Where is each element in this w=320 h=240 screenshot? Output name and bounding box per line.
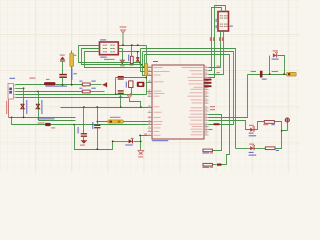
LED D6 red text above bbox=[249, 144, 254, 145]
text red right of fuse bbox=[74, 55, 77, 56]
connector P2 pin texts bbox=[220, 14, 222, 17]
connector P2 right blue mark bbox=[230, 26, 233, 27]
gnd stem boot row2 bbox=[122, 49, 124, 61]
text fuse rating bbox=[73, 73, 76, 74]
capacitor C1 bars bbox=[118, 77, 124, 79]
capacitor C7 blue text below bbox=[262, 79, 267, 80]
net segment maroon R8 bbox=[217, 164, 222, 166]
wire TR led branch left bbox=[269, 56, 271, 75]
wire SWD top loop 2 bbox=[209, 6, 226, 78]
text GND C3 bbox=[80, 145, 85, 146]
wire LED B row left bbox=[236, 148, 251, 150]
wire SWD bottom 2 bbox=[209, 32, 224, 75]
wire C4 bottom to gnd row bbox=[97, 128, 99, 150]
text GND boot bbox=[120, 65, 125, 66]
wire IC OSC_OUT pin bbox=[147, 91, 153, 93]
wire 5V stem bbox=[62, 62, 64, 75]
resistor R5 blue text bbox=[271, 124, 274, 125]
wire resistor A to corner bbox=[275, 122, 288, 131]
wire bus drop1 to IC bbox=[141, 49, 153, 72]
wire bus line3 to R8 row staircase bbox=[145, 55, 230, 165]
connector P1 boot header box bbox=[100, 42, 119, 55]
wire R8 to maroon segment bbox=[213, 164, 217, 166]
wire boot row1 left bbox=[79, 46, 141, 63]
resistor R7 outline row1 bbox=[203, 149, 212, 152]
wire D+ row to crystal area bbox=[91, 91, 105, 93]
LED D7 red text above bbox=[273, 50, 278, 51]
fuse F1 body bbox=[70, 53, 74, 67]
resistor R3 vertical outline bbox=[130, 56, 133, 63]
wire VBUS to VCC arrow bbox=[91, 84, 102, 86]
junction gnd row bbox=[96, 148, 98, 150]
wire cap mid down to rail bbox=[120, 95, 122, 108]
wire resistor B up bbox=[276, 131, 282, 149]
wire OSC left vertical bbox=[115, 78, 117, 95]
wire USB pin2 D- short bbox=[16, 88, 24, 90]
wire cap bank chain2 bbox=[97, 108, 99, 126]
crystal Y1 value vertical text bbox=[126, 82, 127, 88]
wire VDD rail mid bbox=[61, 107, 153, 109]
resistor R4 lower stub bbox=[146, 76, 148, 78]
wire boot row2 right bbox=[119, 48, 123, 50]
net label red pin 111 bbox=[210, 109, 215, 110]
ground open arrow led bbox=[138, 151, 144, 155]
wire LED B to resistor bbox=[255, 148, 266, 150]
resistor R7 texts below bbox=[203, 153, 210, 154]
wire VBUS from USB pin1 bbox=[16, 84, 45, 86]
wire ESD diode D1 vertical bbox=[23, 89, 25, 118]
wire boot row3 right bbox=[119, 51, 140, 53]
net label red upper right pins bbox=[217, 66, 220, 67]
resistor R5 outline bbox=[264, 121, 274, 124]
wire lower row to IC bbox=[51, 124, 153, 126]
IC U2 pin number marks left bbox=[149, 65, 151, 68]
IC U2 body bbox=[152, 65, 204, 139]
text 5V label bbox=[60, 55, 65, 56]
net label SWD wire pair1 bbox=[210, 37, 212, 41]
wire LED A to resistor bbox=[255, 122, 265, 130]
power symbol 3V3 right bbox=[285, 118, 289, 122]
junction rail a bbox=[83, 106, 85, 108]
IC U2 right pin name texts bbox=[182, 66, 203, 69]
net label red pin 108 bbox=[210, 106, 215, 107]
text GND led bbox=[138, 156, 143, 157]
wire fuse to VBUS bbox=[71, 67, 73, 85]
wire boot row3 left bbox=[85, 52, 145, 68]
text above VCC arrow bbox=[120, 27, 127, 28]
junction 5V chain bbox=[62, 84, 64, 86]
net label filled right pin 124 bbox=[214, 123, 220, 125]
IC U2 left pin stubs bbox=[148, 68, 152, 136]
wire VDD pin to top right rail bbox=[209, 75, 248, 118]
IC U2 right pin stubs bbox=[204, 68, 209, 135]
capacitor C4 bars bbox=[94, 125, 100, 127]
LED D6 glyph bbox=[250, 146, 254, 150]
IC U2 designator blue bbox=[153, 61, 158, 62]
capacitor C3 designator vertical bbox=[78, 127, 79, 134]
crystal Y1 case outline bbox=[129, 81, 133, 88]
wire bus drop3 to IC bbox=[145, 55, 153, 68]
wire right pin row 120 to LED A bbox=[209, 121, 251, 130]
connector P1 designator blue bbox=[100, 39, 106, 40]
net label under IC blue bbox=[152, 140, 169, 141]
wire crystal stub bbox=[131, 88, 133, 95]
LED D5 glyph bbox=[250, 128, 254, 132]
resistor R2 value bbox=[91, 88, 96, 89]
wire boot row2 left bbox=[82, 49, 143, 65]
wire gnd row bottom bbox=[75, 125, 113, 150]
ferrite bead FB1 value text bbox=[46, 86, 68, 87]
wire D3 top bbox=[137, 52, 139, 58]
wire cap bank chain1 bbox=[83, 108, 85, 135]
ESD diode D2 vertical text bbox=[41, 100, 42, 114]
capacitor C4 designator vertical bbox=[92, 122, 93, 129]
resistor R8 outline row2 bbox=[203, 163, 212, 166]
resistor R8 texts below bbox=[203, 167, 210, 168]
resistor R2 outline on D+ row bbox=[82, 90, 90, 93]
LED D7 glyph top right bbox=[273, 53, 277, 57]
wire VBUS after bead bbox=[56, 84, 83, 86]
resistor R5 red text bbox=[263, 124, 268, 125]
capacitor C2 bars bbox=[118, 91, 124, 93]
ferrite bead FB1 bbox=[44, 82, 56, 85]
resistor R6 outline bbox=[265, 147, 275, 150]
capacitor C7 red text left bbox=[251, 71, 256, 72]
resistor R1 value bbox=[91, 81, 96, 82]
wire boot row1 right bbox=[119, 45, 147, 47]
wire SWD bottom 1 bbox=[209, 32, 221, 68]
wire USB pin4 long to crystal bottom bbox=[16, 94, 147, 96]
connector J1 USB body bbox=[8, 84, 14, 100]
wire USB pin5 GND row bbox=[16, 97, 130, 99]
LED D4 glyph bbox=[129, 139, 133, 143]
junction pin3 bbox=[37, 91, 39, 93]
capacitor C7 vertical body bbox=[260, 71, 263, 78]
wire bus line1 to LED B bbox=[141, 49, 236, 149]
junction led row bbox=[112, 140, 114, 142]
resistor R1 designator bbox=[79, 81, 82, 82]
resistor R3 designator vertical bbox=[128, 55, 129, 62]
capacitor C6 polarized bars bbox=[59, 75, 67, 78]
inductor L1 value red bbox=[51, 126, 55, 129]
wire USB shell row bbox=[9, 117, 76, 119]
net label filled OSC pins bbox=[204, 79, 211, 81]
wire OSC top row bbox=[116, 77, 147, 79]
wire bus line2 to IC pin 124 bbox=[143, 52, 234, 125]
connector P1 pins text bbox=[103, 45, 105, 46]
connector J1 value text bbox=[30, 78, 36, 79]
LED D6 blue text below bbox=[249, 152, 254, 153]
resistor R1 outline on VBUS row bbox=[82, 83, 90, 86]
connector J1 USB shell tail bbox=[8, 100, 10, 118]
wire top right rail bbox=[248, 74, 288, 76]
ESD diode D1 glyph bbox=[21, 104, 25, 109]
resistor R3 bottom text bbox=[130, 65, 134, 66]
capacitor C3 bars bbox=[81, 134, 87, 136]
LED D5 blue text below bbox=[249, 133, 254, 134]
fuse F1 value vertical text bbox=[71, 68, 72, 81]
LED D5 red text above bbox=[249, 125, 254, 126]
capacitor C5 yellow body bbox=[108, 120, 124, 123]
wire power stem bbox=[287, 123, 289, 131]
ESD diode D1 vertical text bbox=[26, 100, 27, 114]
net label SWD wire pair2 bbox=[219, 37, 221, 41]
resistor R4 vertical yellow bbox=[146, 46, 148, 64]
LED D7 blue text below bbox=[272, 59, 279, 60]
inductor L1 label red bbox=[38, 123, 45, 124]
connector J1 USB icon bbox=[9, 88, 12, 91]
wire ESD diode D2 vertical bbox=[38, 92, 40, 121]
junction pin2 bbox=[23, 87, 25, 89]
capacitor C5 red text above bbox=[110, 117, 121, 118]
ground bars symbol bbox=[120, 60, 125, 63]
pin stubs J1 bbox=[14, 85, 16, 97]
connector P2 SWD box bbox=[218, 12, 229, 32]
power port 5V arrow bbox=[60, 57, 65, 60]
IC U2 pin number marks right bbox=[205, 65, 207, 68]
resistor R2 designator bbox=[79, 88, 82, 89]
wire bus drop2 to IC bbox=[143, 52, 153, 76]
wire C3 to gnd bbox=[83, 137, 85, 141]
connector P1 bottom text blue bbox=[100, 57, 107, 58]
wire C6 to VBUS bbox=[62, 78, 64, 85]
wire C5 row to IC bbox=[98, 121, 153, 123]
text red right of C7 bbox=[272, 71, 278, 72]
wire TR led right bbox=[278, 56, 285, 75]
wire SWD top loop 1 bbox=[209, 8, 222, 71]
wire R3 top bbox=[131, 46, 133, 57]
ground flag pink crystal bbox=[127, 95, 132, 98]
wire IC pin to led net bbox=[141, 136, 153, 142]
connector P2 side blue marks bbox=[216, 19, 217, 22]
power port VCC pink arrow top bbox=[121, 30, 126, 33]
junction OSC bottom bbox=[130, 93, 132, 95]
wire IC OSC_IN pin bbox=[147, 82, 153, 84]
wire ESD2 bottom row bbox=[39, 120, 76, 122]
fuse F1 top stub bbox=[71, 51, 73, 54]
diode D3 glyph bbox=[136, 58, 139, 62]
IC U2 left pin name texts bbox=[154, 66, 163, 69]
wire shell drop to lower row bbox=[12, 118, 46, 125]
wire nrst led row bbox=[113, 141, 129, 143]
connector J1 designator text bbox=[10, 78, 16, 79]
power port arrow left VCC bbox=[102, 83, 106, 87]
net label USBDM blue bbox=[38, 118, 55, 119]
wire led to junction bbox=[134, 141, 141, 143]
wire OSC right vertical bbox=[146, 76, 148, 95]
junction bundle row2 bbox=[141, 64, 143, 66]
resistor R6 blue text right bbox=[276, 150, 279, 151]
LED D4 blue text bbox=[125, 145, 133, 146]
inductor L1 bead lower bbox=[45, 123, 51, 126]
junction rail d bbox=[140, 106, 142, 108]
wire led gnd stem bbox=[140, 142, 142, 151]
wire right pin row 129 stub bbox=[209, 129, 213, 131]
junction rail c bbox=[120, 106, 122, 108]
junction bundle row3 bbox=[143, 66, 145, 68]
connector P1 bottom type text red bbox=[104, 59, 115, 60]
text tiny red near arrow bbox=[83, 86, 86, 87]
wire crystal gnd path bbox=[130, 99, 141, 108]
text C15 blue bbox=[119, 97, 122, 98]
ferrite bead FB1 designator bbox=[46, 79, 50, 80]
wire USB pin3 D+ row bbox=[16, 91, 83, 93]
capacitor C8 yellow body right end bbox=[287, 72, 297, 76]
connector J1 vertical type text bbox=[6, 101, 7, 115]
junction bundle row1 bbox=[139, 62, 141, 64]
wire right pin row 114 to R7 bbox=[209, 115, 222, 151]
junction OSC right top bbox=[145, 77, 147, 79]
tiny red text above pin bbox=[144, 134, 147, 135]
junction rail b bbox=[96, 106, 98, 108]
junction lower row bbox=[73, 124, 75, 126]
crystal Y1 body filled bbox=[137, 82, 145, 87]
ground solid arrow C3 bbox=[81, 140, 88, 143]
ESD diode D2 glyph bbox=[36, 104, 40, 109]
